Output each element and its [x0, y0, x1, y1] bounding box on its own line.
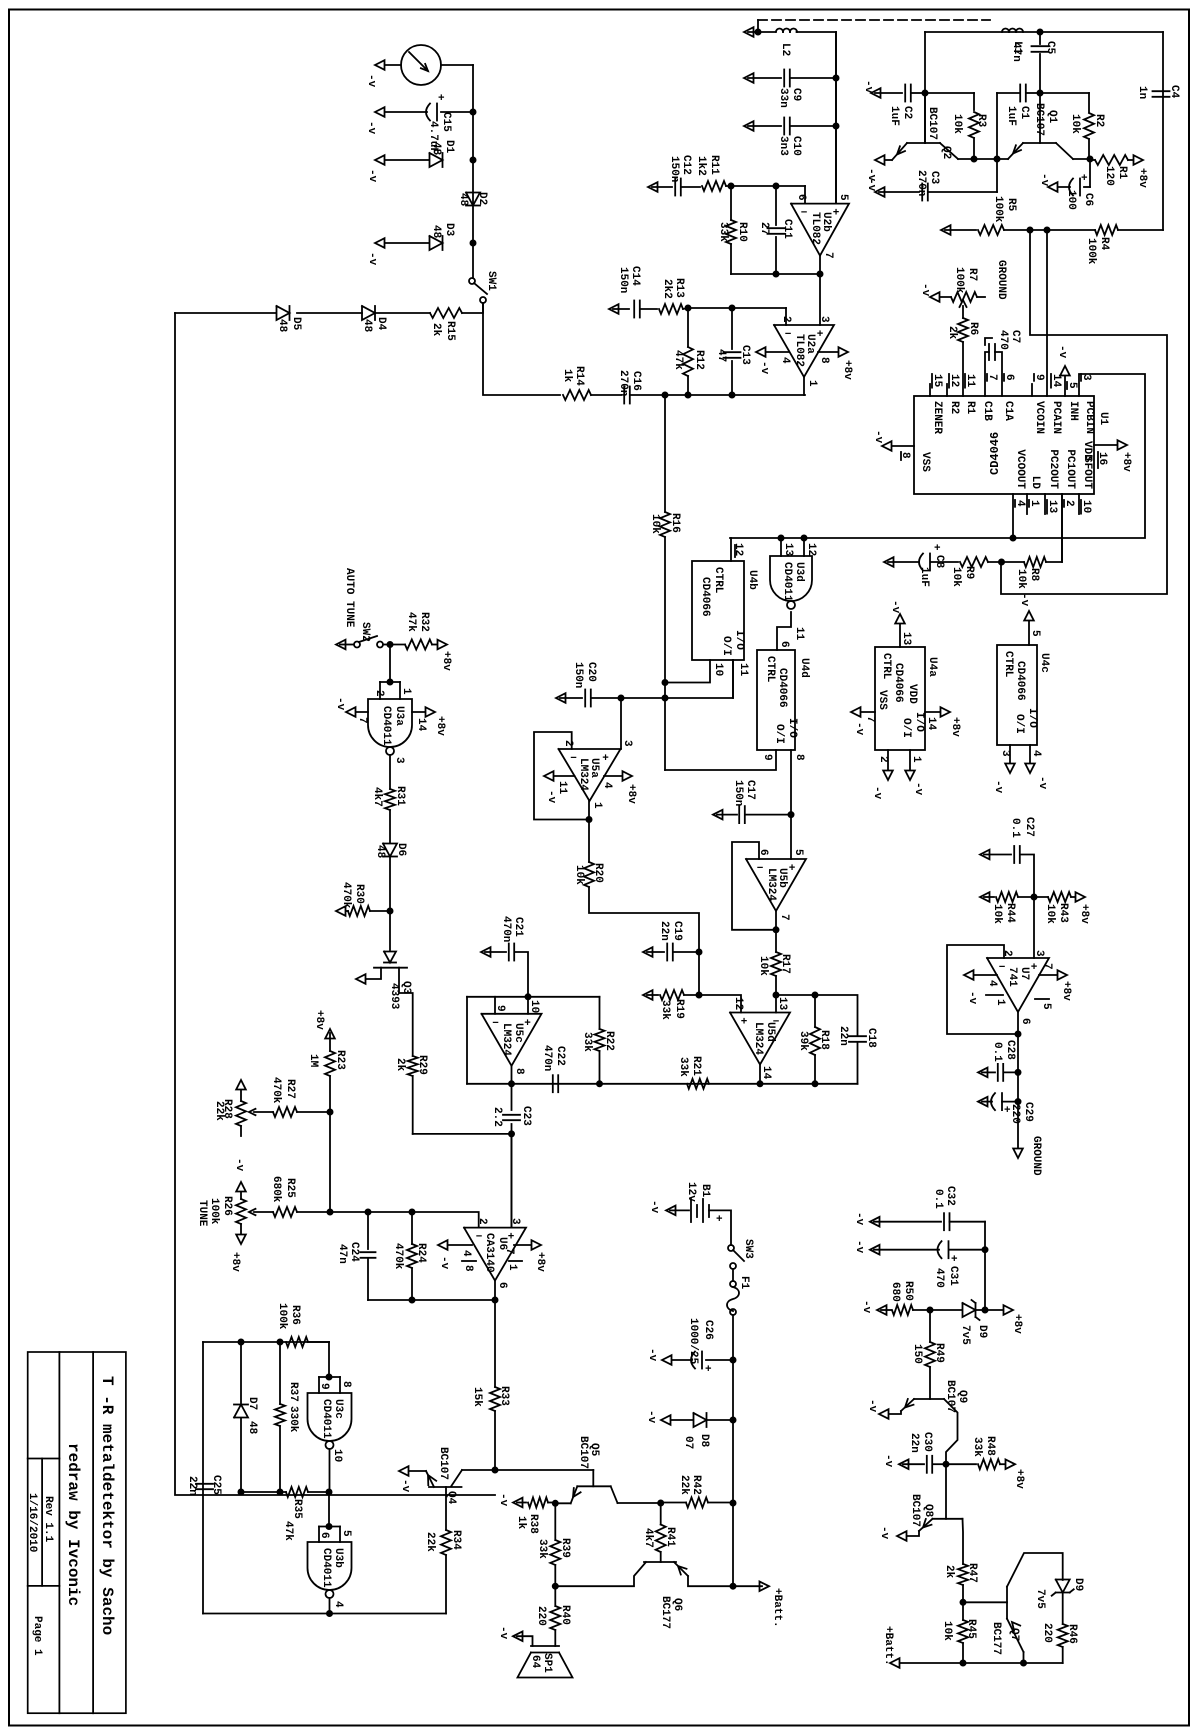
svg-text:220: 220 [1041, 1623, 1053, 1643]
svg-text:C27: C27 [1023, 817, 1035, 837]
svg-text:6: 6 [318, 1532, 330, 1539]
svg-text:C11: C11 [781, 219, 793, 239]
svg-text:12: 12 [732, 997, 744, 1010]
svg-text:R31: R31 [394, 786, 406, 806]
svg-text:2k: 2k [394, 1058, 406, 1072]
svg-text:270n: 270n [915, 170, 927, 196]
svg-text:C18: C18 [865, 1028, 877, 1048]
svg-text:C13: C13 [739, 345, 751, 365]
svg-text:CTRL: CTRL [880, 653, 892, 680]
svg-text:-v: -v [912, 782, 924, 796]
svg-text:Q8: Q8 [922, 1504, 934, 1518]
svg-text:-v: -v [365, 121, 377, 135]
svg-text:-v: -v [853, 1212, 865, 1226]
svg-text:-v: -v [645, 1410, 657, 1424]
svg-text:150: 150 [911, 1344, 923, 1364]
svg-text:2: 2 [877, 756, 889, 763]
svg-text:22n: 22n [908, 1433, 920, 1453]
svg-text:9: 9 [761, 754, 773, 761]
svg-text:-v: -v [365, 74, 377, 88]
svg-text:47n: 47n [336, 1244, 348, 1264]
svg-text:22k: 22k [213, 1101, 225, 1121]
svg-text:CTRL: CTRL [1002, 651, 1014, 678]
svg-text:7: 7 [822, 252, 834, 259]
svg-text:−: − [785, 329, 792, 341]
svg-text:R42: R42 [690, 1475, 702, 1495]
svg-text:R32: R32 [418, 612, 430, 632]
svg-text:C20: C20 [585, 662, 597, 682]
svg-text:R6: R6 [967, 322, 979, 335]
svg-text:C9: C9 [790, 88, 802, 101]
svg-text:-v: -v [919, 283, 931, 297]
svg-text:4k7: 4k7 [371, 787, 383, 807]
svg-text:-v: -v [853, 1240, 865, 1254]
svg-text:CD4066: CD4066 [892, 663, 904, 703]
svg-text:−: − [757, 863, 764, 875]
svg-text:33k: 33k [659, 1000, 671, 1020]
svg-text:2k: 2k [430, 323, 442, 337]
svg-text:1M: 1M [307, 1054, 319, 1068]
svg-text:R44: R44 [1004, 903, 1016, 923]
svg-text:680: 680 [889, 1282, 901, 1302]
svg-text:-v: -v [866, 1399, 878, 1413]
svg-text:10k: 10k [991, 904, 1003, 924]
svg-text:R1: R1 [964, 401, 976, 415]
svg-text:+8v: +8v [1011, 1314, 1023, 1334]
svg-text:+8v: +8v [1120, 452, 1132, 472]
svg-text:-v: -v [648, 1200, 660, 1214]
svg-text:Rev 1.1: Rev 1.1 [42, 1496, 54, 1543]
svg-text:D9: D9 [976, 1325, 988, 1338]
svg-text:R41: R41 [664, 1527, 676, 1547]
svg-text:-v: -v [366, 169, 378, 183]
svg-text:-v: -v [758, 361, 770, 375]
svg-text:1: 1 [806, 380, 818, 387]
svg-text:3: 3 [621, 740, 633, 747]
svg-text:CD4046: CD4046 [988, 432, 1002, 475]
svg-text:C3: C3 [928, 171, 940, 185]
svg-text:D9: D9 [1072, 1578, 1084, 1591]
svg-text:4: 4 [1014, 500, 1026, 507]
svg-text:-v: -v [878, 1526, 890, 1540]
svg-text:2: 2 [562, 740, 574, 747]
svg-text:470: 470 [997, 330, 1009, 350]
svg-text:-v: -v [334, 697, 346, 711]
svg-text:U4a: U4a [926, 657, 938, 677]
svg-text:TL082: TL082 [793, 334, 805, 367]
svg-text:+: + [741, 1017, 748, 1029]
svg-text:R9: R9 [963, 566, 975, 579]
svg-text:O/I: O/I [1013, 714, 1025, 734]
svg-text:Q3: Q3 [400, 981, 412, 995]
svg-text:U4b: U4b [746, 570, 758, 590]
svg-text:10k: 10k [941, 1621, 953, 1641]
svg-text:R3: R3 [975, 114, 987, 128]
svg-text:CTRL: CTRL [764, 656, 776, 683]
svg-text:R22: R22 [603, 1031, 615, 1051]
svg-text:+Batt.: +Batt. [771, 1588, 783, 1628]
svg-text:10k: 10k [573, 865, 585, 885]
svg-text:6: 6 [1019, 1018, 1031, 1025]
svg-text:C31: C31 [947, 1266, 959, 1286]
svg-text:7: 7 [503, 1248, 515, 1255]
svg-text:1: 1 [400, 688, 412, 695]
svg-text:R2: R2 [948, 401, 960, 414]
svg-text:U3a: U3a [393, 706, 405, 726]
svg-text:22n: 22n [186, 1476, 198, 1496]
svg-text:D6: D6 [395, 843, 407, 856]
svg-text:1k2: 1k2 [695, 156, 707, 176]
svg-text:1: 1 [506, 1264, 518, 1271]
svg-text:+: + [1031, 962, 1038, 974]
svg-text:R2: R2 [1093, 114, 1105, 127]
svg-text:+: + [438, 93, 445, 105]
svg-text:100k: 100k [1085, 238, 1097, 265]
svg-text:9: 9 [1033, 374, 1045, 381]
svg-text:220: 220 [1009, 1104, 1021, 1124]
svg-text:12: 12 [948, 374, 960, 387]
svg-text:-v: -v [871, 786, 883, 800]
svg-text:6: 6 [496, 1282, 508, 1289]
svg-text:10: 10 [528, 1000, 540, 1013]
svg-text:C26: C26 [702, 1320, 714, 1340]
svg-text:LD: LD [1029, 476, 1041, 490]
svg-text:C1A: C1A [1002, 401, 1014, 421]
svg-text:8: 8 [513, 1068, 525, 1075]
svg-text:2.2: 2.2 [491, 1107, 503, 1127]
svg-text:100k: 100k [276, 1303, 288, 1330]
svg-text:-v: -v [366, 252, 378, 266]
svg-text:R19: R19 [673, 999, 685, 1019]
svg-text:1: 1 [1028, 500, 1040, 507]
svg-text:BC107: BC107 [944, 1380, 956, 1413]
svg-text:0.1: 0.1 [1009, 818, 1021, 838]
svg-text:8: 8 [340, 1381, 352, 1388]
svg-text:R15: R15 [444, 321, 456, 341]
svg-text:C12: C12 [680, 155, 692, 175]
svg-text:-v: -v [872, 430, 884, 444]
svg-text:+: + [1081, 173, 1088, 185]
svg-text:13: 13 [782, 543, 794, 557]
svg-text:C29: C29 [1022, 1102, 1034, 1122]
svg-text:R27: R27 [284, 1079, 296, 1099]
svg-text:T -R metaldetektor by Sacho: T -R metaldetektor by Sacho [98, 1376, 116, 1635]
svg-text:10k: 10k [649, 514, 661, 534]
svg-text:C19: C19 [671, 921, 683, 941]
svg-text:VDD: VDD [1081, 441, 1093, 461]
svg-text:C8: C8 [933, 555, 945, 569]
svg-text:R13: R13 [673, 278, 685, 298]
svg-text:3: 3 [1033, 950, 1045, 957]
svg-text:R50: R50 [902, 1281, 914, 1301]
svg-text:R1: R1 [1116, 166, 1128, 180]
svg-text:5: 5 [1029, 630, 1041, 637]
svg-text:-v: -v [545, 790, 557, 804]
svg-text:R38: R38 [527, 1514, 539, 1534]
svg-text:LM324: LM324 [577, 758, 589, 791]
svg-text:SW2: SW2 [359, 622, 371, 642]
svg-text:GROUND: GROUND [1030, 1136, 1042, 1176]
svg-text:-v: -v [1056, 345, 1068, 359]
svg-text:4: 4 [1030, 750, 1042, 757]
svg-text:C14: C14 [629, 266, 641, 286]
svg-text:D2: D2 [476, 192, 488, 205]
svg-text:10: 10 [1080, 500, 1092, 513]
svg-text:8: 8 [462, 1265, 474, 1272]
svg-text:3: 3 [818, 316, 830, 323]
svg-text:LM324: LM324 [752, 1022, 764, 1055]
svg-text:1uF: 1uF [888, 106, 900, 126]
svg-text:1n: 1n [1136, 86, 1148, 99]
svg-text:BC107: BC107 [926, 107, 938, 140]
svg-text:1: 1 [994, 999, 1006, 1006]
svg-text:R14: R14 [573, 366, 585, 386]
svg-text:150n: 150n [668, 156, 680, 182]
svg-text:14: 14 [925, 717, 937, 731]
svg-text:−: − [999, 962, 1006, 974]
svg-text:4: 4 [986, 980, 998, 987]
svg-text:-v: -v [497, 1626, 509, 1640]
svg-text:1k: 1k [561, 369, 573, 383]
svg-text:CD4011: CD4011 [781, 562, 793, 602]
svg-text:100: 100 [1065, 190, 1077, 210]
svg-text:U3b: U3b [332, 1548, 344, 1568]
svg-text:4: 4 [779, 357, 791, 364]
svg-text:CD4011: CD4011 [380, 706, 392, 746]
svg-text:48: 48 [246, 1421, 258, 1435]
svg-text:1/16/2010: 1/16/2010 [26, 1493, 38, 1552]
svg-text:7v5: 7v5 [959, 1325, 971, 1345]
svg-text:-v: -v [1036, 776, 1048, 790]
svg-text:4: 4 [601, 782, 613, 789]
svg-text:48: 48 [374, 845, 386, 859]
svg-text:8: 8 [899, 452, 911, 459]
svg-text:2k: 2k [946, 326, 958, 340]
svg-text:R29: R29 [416, 1055, 428, 1075]
svg-text:4k7: 4k7 [642, 1528, 654, 1548]
svg-text:R46: R46 [1066, 1624, 1078, 1644]
svg-text:R21: R21 [690, 1056, 702, 1076]
svg-text:CD4066: CD4066 [699, 577, 711, 617]
svg-text:+: + [817, 329, 824, 341]
svg-text:AUTO TUNE: AUTO TUNE [343, 568, 355, 628]
svg-text:100k: 100k [953, 267, 965, 294]
svg-text:BC107: BC107 [1033, 103, 1045, 136]
svg-text:R49: R49 [933, 1343, 945, 1363]
svg-text:R33: R33 [498, 1386, 510, 1406]
svg-text:CD4066: CD4066 [776, 668, 788, 708]
svg-text:33k: 33k [536, 1539, 548, 1559]
svg-text:CA3140: CA3140 [483, 1233, 495, 1273]
svg-text:D4: D4 [375, 317, 387, 331]
svg-text:3n3: 3n3 [777, 136, 789, 156]
svg-text:48: 48 [430, 142, 442, 156]
svg-text:48: 48 [430, 225, 442, 239]
svg-text:VDD: VDD [906, 684, 918, 704]
svg-text:CD4011: CD4011 [320, 1548, 332, 1588]
svg-text:7: 7 [778, 914, 790, 921]
svg-text:BC107: BC107 [577, 1436, 589, 1469]
svg-text:12: 12 [805, 543, 817, 556]
svg-text:L2: L2 [779, 43, 791, 56]
svg-text:D1: D1 [443, 140, 455, 154]
svg-text:-v: -v [860, 1300, 872, 1314]
svg-text:10: 10 [331, 1449, 343, 1462]
svg-text:D3: D3 [443, 223, 455, 237]
svg-text:7v5: 7v5 [1034, 1589, 1046, 1609]
svg-text:47n: 47n [1010, 42, 1022, 62]
svg-text:1k: 1k [515, 1516, 527, 1530]
svg-text:-v: -v [1018, 593, 1030, 607]
svg-text:redraw by Ivconic: redraw by Ivconic [64, 1443, 82, 1606]
svg-text:+: + [524, 1018, 531, 1030]
svg-text:SW3: SW3 [742, 1239, 754, 1259]
svg-text:R39: R39 [559, 1538, 571, 1558]
svg-text:U3c: U3c [332, 1399, 344, 1419]
svg-text:PC1OUT: PC1OUT [1064, 449, 1076, 489]
svg-text:6: 6 [778, 641, 790, 648]
svg-text:R26: R26 [221, 1196, 233, 1216]
svg-text:U5c: U5c [512, 1023, 524, 1043]
svg-text:C1B: C1B [981, 401, 993, 421]
svg-text:D7: D7 [246, 1397, 258, 1410]
svg-text:R8: R8 [1028, 568, 1040, 582]
svg-text:SFOUT: SFOUT [1081, 456, 1093, 489]
svg-text:R10: R10 [736, 222, 748, 242]
svg-text:5: 5 [837, 194, 849, 201]
svg-text:13: 13 [776, 997, 788, 1011]
svg-text:5: 5 [1066, 382, 1078, 389]
svg-text:5: 5 [1040, 1003, 1052, 1010]
svg-text:0.1: 0.1 [932, 1189, 944, 1209]
svg-text:R16: R16 [669, 513, 681, 533]
svg-text:48: 48 [276, 319, 288, 333]
svg-text:C7: C7 [1009, 330, 1021, 343]
svg-text:2k: 2k [943, 1565, 955, 1579]
svg-text:10k: 10k [1069, 114, 1081, 134]
svg-text:R36: R36 [289, 1305, 301, 1325]
svg-text:5: 5 [792, 849, 804, 856]
svg-text:270n: 270n [617, 370, 629, 396]
svg-text:+8v: +8v [949, 717, 961, 737]
svg-text:-v: -v [966, 991, 978, 1005]
svg-text:Page 1: Page 1 [31, 1616, 43, 1656]
svg-text:R18: R18 [818, 1030, 830, 1050]
svg-text:+8v: +8v [841, 360, 853, 380]
svg-text:10k: 10k [757, 956, 769, 976]
svg-text:I/O: I/O [913, 712, 925, 732]
svg-text:PCAIN: PCAIN [1050, 401, 1062, 434]
svg-text:C1: C1 [1018, 106, 1030, 120]
svg-text:33k: 33k [971, 1437, 983, 1457]
svg-text:Q7: Q7 [1008, 1628, 1020, 1641]
svg-text:R35: R35 [291, 1499, 303, 1519]
svg-text:22k: 22k [678, 1475, 690, 1495]
svg-text:470k: 470k [340, 882, 352, 909]
svg-text:3: 3 [509, 1218, 521, 1225]
svg-text:R17: R17 [779, 954, 791, 974]
svg-text:13: 13 [1046, 500, 1058, 514]
svg-text:BC107: BC107 [909, 1494, 921, 1527]
svg-text:VCOOUT: VCOOUT [1014, 449, 1026, 489]
svg-text:-v: -v [233, 1158, 245, 1172]
svg-text:R25: R25 [284, 1178, 296, 1198]
svg-text:R12: R12 [693, 350, 705, 370]
svg-text:7: 7 [1041, 963, 1053, 970]
svg-text:1uF: 1uF [918, 567, 930, 587]
svg-text:680k: 680k [270, 1176, 282, 1203]
svg-text:BC177: BC177 [990, 1622, 1002, 1655]
svg-text:+8v: +8v [440, 651, 452, 671]
svg-text:2: 2 [373, 690, 385, 697]
svg-text:6: 6 [1003, 374, 1015, 381]
svg-text:R20: R20 [592, 863, 604, 883]
svg-text:100k: 100k [208, 1198, 220, 1225]
svg-text:-v: -v [882, 1454, 894, 1468]
svg-text:+8v: +8v [625, 784, 637, 804]
svg-text:33k: 33k [717, 222, 729, 242]
svg-text:47k: 47k [282, 1521, 294, 1541]
svg-text:3: 3 [999, 750, 1011, 757]
svg-text:3: 3 [1080, 374, 1092, 381]
svg-text:R11: R11 [708, 155, 720, 175]
svg-text:33k: 33k [581, 1032, 593, 1052]
svg-text:R24: R24 [415, 1243, 427, 1263]
svg-text:07: 07 [682, 1436, 694, 1449]
svg-text:+8v: +8v [313, 1010, 325, 1030]
svg-text:R37: R37 [287, 1382, 299, 1402]
svg-text:2: 2 [476, 1218, 488, 1225]
svg-text:+Batt.: +Batt. [882, 1626, 894, 1666]
svg-text:+8v: +8v [1078, 904, 1090, 924]
svg-text:PCBIN: PCBIN [1083, 401, 1095, 434]
svg-text:R23: R23 [334, 1050, 346, 1070]
svg-text:8: 8 [818, 357, 830, 364]
svg-text:C28: C28 [1004, 1040, 1016, 1060]
svg-text:PC2OUT: PC2OUT [1047, 449, 1059, 489]
svg-text:Q2: Q2 [940, 146, 952, 159]
svg-text:1: 1 [910, 756, 922, 763]
svg-text:BC107: BC107 [437, 1447, 449, 1480]
svg-text:I/O: I/O [733, 630, 745, 650]
svg-text:O/I: O/I [720, 636, 732, 656]
svg-text:O/I: O/I [773, 724, 785, 744]
svg-text:CTRL: CTRL [712, 567, 724, 594]
svg-text:120: 120 [1103, 166, 1115, 186]
svg-text:ZENER: ZENER [931, 401, 943, 434]
svg-text:−: − [492, 1018, 499, 1030]
svg-text:TUNE: TUNE [196, 1200, 208, 1227]
svg-text:11: 11 [793, 627, 805, 641]
svg-text:VSS: VSS [876, 690, 888, 710]
svg-text:741: 741 [1006, 967, 1018, 987]
svg-text:5: 5 [340, 1530, 352, 1537]
svg-text:+: + [951, 1254, 958, 1266]
svg-text:1: 1 [591, 802, 603, 809]
svg-text:4: 4 [332, 1601, 344, 1608]
svg-text:VCOIN: VCOIN [1033, 401, 1045, 434]
svg-text:1000/25: 1000/25 [687, 1318, 699, 1365]
svg-text:7: 7 [986, 374, 998, 381]
svg-text:470: 470 [933, 1268, 945, 1288]
svg-text:220: 220 [535, 1606, 547, 1626]
svg-text:64: 64 [529, 1655, 541, 1669]
svg-text:U4d: U4d [798, 658, 810, 678]
svg-text:9: 9 [318, 1383, 330, 1390]
svg-text:−: − [570, 753, 577, 765]
svg-text:470n: 470n [541, 1045, 553, 1071]
svg-text:14: 14 [1050, 374, 1062, 388]
